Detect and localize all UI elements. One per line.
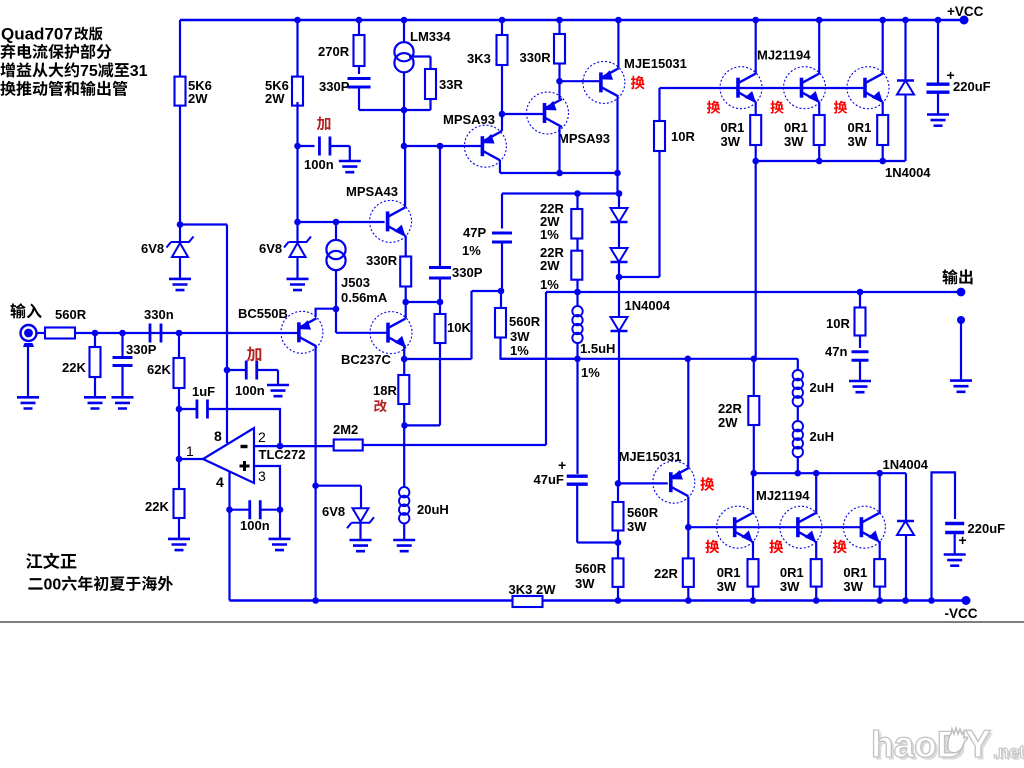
svg-text:3W: 3W [717, 579, 737, 594]
+VCC rail [180, 19, 964, 21]
svg-text:560R: 560R [627, 505, 659, 520]
inductor L 2uH #1 [797, 359, 799, 370]
svg-text:2W: 2W [265, 91, 285, 106]
svg-text:10K: 10K [447, 320, 471, 335]
resistor R 330R mid [400, 257, 411, 287]
wire feedback node left to riser [546, 291, 578, 293]
svg-text:75: 75 [80, 63, 98, 80]
svg-text:1%: 1% [581, 365, 600, 380]
node +6V8 A junction [177, 221, 184, 228]
svg-text:100n: 100n [235, 383, 265, 398]
resistor R 0R1 3W bottom #2 [811, 559, 822, 587]
svg-text:2uH: 2uH [810, 380, 835, 395]
wire 330R bottom to 10K top [406, 301, 440, 303]
svg-text:0R1: 0R1 [784, 120, 808, 135]
junction emitter column / LR node [751, 356, 758, 363]
ground input [17, 397, 39, 408]
svg-text:MJE15031: MJE15031 [619, 449, 682, 464]
svg-text:3W: 3W [780, 579, 800, 594]
junction 5K6-100n node [294, 143, 301, 150]
svg-text:330P: 330P [452, 265, 483, 280]
svg-text:6V8: 6V8 [141, 241, 164, 256]
wire 1N4004 to MJE#2 base [615, 480, 622, 487]
resistor R 330R top [558, 20, 560, 34]
svg-text:22R: 22R [654, 566, 678, 581]
svg-text:6V8: 6V8 [259, 241, 282, 256]
LM334 set resistor tap wire [409, 55, 431, 57]
resistor R 33R [425, 69, 436, 99]
op-amp plus symbol [240, 461, 250, 471]
svg-text:3W: 3W [627, 519, 647, 534]
MJ21194 bottom #3 emitter wire [879, 541, 881, 559]
junction 62K top [176, 330, 183, 337]
wire driver bases [660, 87, 866, 89]
op-amp minus symbol [241, 445, 248, 448]
resistor R 5K6 2W #2 [296, 20, 298, 77]
svg-text:2W: 2W [718, 415, 738, 430]
svg-text:J503: J503 [341, 275, 370, 290]
svg-text:3W: 3W [784, 134, 804, 149]
junction MPSA93#2 collector [556, 170, 563, 177]
wire 330P#3 to junction [439, 278, 441, 302]
+VCC rail end dot [960, 16, 969, 25]
red note huan MJE#1 [631, 76, 645, 90]
zener D 6V8 #3 [347, 517, 374, 528]
resistor R 270R [358, 20, 360, 35]
wire 6V8 node to MPSA43 base [298, 221, 385, 223]
svg-text:22K: 22K [62, 360, 86, 375]
red note gai [374, 400, 387, 413]
junction MPSA43 collector node [401, 143, 408, 150]
junction diode chain bottom [616, 274, 623, 281]
svg-text:.net: .net [993, 742, 1024, 762]
svg-text:1%: 1% [540, 277, 559, 292]
junction 22R chain top [574, 190, 581, 197]
resistor R 3K3 2W inline [513, 596, 543, 607]
svg-text:10R: 10R [826, 316, 850, 331]
capacitor C 330P #1 [348, 78, 371, 87]
svg-text:2: 2 [258, 429, 266, 445]
junction 330P#3 riser tap [437, 143, 444, 150]
BC237C emitter wire [403, 347, 405, 360]
resistor R 22R 2W 1% #1 [576, 194, 578, 210]
ground 6V8 #1 [169, 279, 191, 290]
wire 22R 2W to collector bus [753, 425, 755, 473]
resistor R 0R1 3W bottom #3 [874, 559, 885, 587]
svg-text:2W: 2W [188, 91, 208, 106]
MJ21194 bottom #1 emitter wire [752, 541, 754, 559]
junction 0R1 bottoms [752, 158, 759, 165]
bottom bypass riser wire [932, 472, 956, 600]
svg-text:0R1: 0R1 [717, 565, 741, 580]
svg-text:6V8: 6V8 [322, 504, 345, 519]
junction MJE15031#1 collector [614, 170, 621, 177]
transistor Q MJE15031 #1 [583, 61, 625, 103]
svg-text:1%: 1% [462, 243, 481, 258]
ground 20uH [393, 540, 415, 551]
svg-text:1N4004: 1N4004 [883, 457, 929, 472]
MJ21194 top #2 emitter wire [818, 102, 820, 116]
resistor R 22R bottom [683, 558, 694, 587]
inductor L 20uH [399, 487, 409, 497]
red note huan MJE#2 [700, 477, 714, 491]
svg-text:330R: 330R [366, 253, 398, 268]
svg-text:1.5uH: 1.5uH [580, 341, 615, 356]
junction dots top rail [294, 17, 301, 24]
node +6V8 B junction [294, 219, 301, 226]
svg-text:0R1: 0R1 [780, 565, 804, 580]
MPSA93#1 collector wire [499, 160, 501, 173]
resistor R 560R input [37, 332, 46, 334]
MJE15031#1 emitter wire to rail [617, 20, 619, 68]
transistor Q BC550B [281, 311, 323, 353]
wire pin2 to 2M2 [254, 445, 280, 447]
ground 220uF top [927, 115, 949, 126]
MJ21194 bottom #1 collector wire [752, 473, 754, 514]
resistor R 2M2 [334, 440, 363, 451]
junction MJE#2 emitter tap [685, 356, 692, 363]
BC237C collector wire [405, 302, 407, 318]
junction 6V8#3 tap [312, 482, 319, 489]
junction 22K top [92, 330, 99, 337]
-VCC rail left segment [230, 599, 513, 601]
wire 47P bottom to node B [501, 242, 503, 291]
svg-text:1N4004: 1N4004 [885, 165, 931, 180]
wire to MJE15031#1 base [560, 80, 601, 82]
capacitor C 47P 1% [492, 233, 512, 242]
current source U LM334 [403, 20, 405, 42]
junction BC237C emitter node [401, 356, 408, 363]
junction 100n#3 right / pin3 node [277, 506, 284, 513]
resistor R 22K #2 [178, 459, 180, 489]
inductor L 2uH #2 [797, 406, 799, 421]
junction 18R bottom [403, 404, 405, 425]
svg-text:47uF: 47uF [534, 472, 564, 487]
MJ21194 top #3 emitter wire [882, 102, 884, 116]
wire bias node row [500, 358, 798, 360]
svg-text:TLC272: TLC272 [259, 447, 306, 462]
svg-text:330R: 330R [520, 50, 552, 65]
MJ21194 top #3 collector wire [882, 20, 884, 74]
svg-text:560R: 560R [575, 561, 607, 576]
wire 47P top to 22R chain [501, 194, 503, 229]
svg-text:8: 8 [214, 428, 222, 444]
ground 100n #2 [267, 385, 289, 396]
resistor R 3K3 [501, 20, 503, 35]
svg-text:33R: 33R [439, 77, 463, 92]
diode D 1N4004 rail-split [618, 277, 620, 317]
junction 1uF left [176, 406, 183, 413]
collector bus wire bottom [754, 472, 906, 474]
svg-text:MPSA93: MPSA93 [443, 112, 495, 127]
watermark haoDIY.net [871, 723, 1024, 768]
resistor R 0R1 3W bottom #1 [748, 559, 759, 587]
pin 4 wire [228, 471, 230, 600]
node V1 junction 3K3/MPSA93#1 [499, 111, 506, 118]
resistor R 10R driver [658, 88, 660, 121]
svg-text:62K: 62K [147, 362, 171, 377]
current source U J503 0.56mA [333, 219, 340, 226]
transistor Q MJ21194 bottom #2 [780, 506, 822, 548]
junction 100n#2 tap [224, 367, 231, 374]
MJ21194 bottom #3 collector wire [879, 473, 881, 514]
svg-text:2uH: 2uH [810, 429, 835, 444]
capacitor C 47uF electrolytic [576, 359, 578, 474]
svg-text:00: 00 [44, 577, 62, 594]
svg-text:220uF: 220uF [968, 521, 1006, 536]
output return terminal dot [957, 316, 965, 324]
MPSA43 collector wire [404, 146, 406, 207]
svg-text:3W: 3W [843, 579, 863, 594]
resistor R 22R 2W [753, 359, 755, 396]
ground 22K #2 [168, 539, 190, 550]
svg-text:3K3 2W: 3K3 2W [509, 582, 557, 597]
svg-text:22R: 22R [718, 401, 742, 416]
resistor R 22R 2W 1% #2 [576, 239, 578, 251]
diode D 1N4004 bottom [905, 473, 907, 600]
svg-text:1N4004: 1N4004 [625, 298, 671, 313]
red note huan bottom bank [705, 540, 719, 554]
diode D 1N4004 top [904, 20, 906, 80]
svg-text:3W: 3W [575, 576, 595, 591]
wire 560R bottom corner [501, 338, 578, 359]
junction 10K top [437, 299, 444, 306]
capacitor C 220uF top electrolytic [937, 20, 939, 83]
junction dots -VCC rail [312, 597, 319, 604]
inductor L 1.5uH [574, 356, 581, 363]
wire 18R bottom down to 20uH [403, 425, 405, 487]
wire V1 to MPSA93#2 base [502, 113, 545, 115]
capacitor C 330P #3 [429, 267, 451, 278]
MJ21194 top #1 collector wire [755, 20, 757, 74]
svg-text:270R: 270R [318, 44, 350, 59]
resistor R 560R 3W #A [617, 483, 619, 502]
ground 330P #2 [112, 397, 134, 408]
wire emitter node to riser [404, 358, 471, 360]
svg-text:330P: 330P [319, 79, 350, 94]
svg-text:-VCC: -VCC [945, 606, 978, 621]
wire to BC237C base [335, 309, 337, 333]
diode D bias #1 [618, 194, 620, 209]
capacitor C 100n #1 [298, 145, 315, 147]
transistor Q MJ21194 bottom #3 [843, 506, 885, 548]
wire collector node to MPSA93#1 base [404, 145, 482, 147]
junction Zobel tap [857, 289, 864, 296]
svg-text:Y: Y [965, 723, 991, 766]
MJE15031#2 collector wire [687, 497, 689, 559]
ground output return [950, 381, 972, 392]
wire MPSA93 collectors [500, 172, 618, 174]
output wire [578, 291, 962, 293]
divider line [0, 621, 1024, 623]
output return ground wire [960, 320, 962, 381]
wire 62K-1uF-output column [178, 409, 180, 459]
input connector ground wire [27, 347, 29, 397]
resistor R 18R [403, 359, 405, 375]
svg-text:330n: 330n [144, 307, 174, 322]
svg-text:20uH: 20uH [417, 502, 449, 517]
transistor Q MPSA93 #2 [527, 92, 569, 134]
transistor Q BC237C [370, 312, 412, 354]
capacitor C 330n [150, 324, 161, 343]
zener D 6V8 #2 [296, 222, 298, 242]
svg-text:MPSA43: MPSA43 [346, 184, 398, 199]
node B junction 47P/560R [498, 288, 505, 295]
MJ21194 top #1 emitter wire [755, 102, 757, 116]
junction feedback node [574, 289, 581, 296]
MJ21194 bottom #2 emitter wire [815, 541, 817, 559]
junction J503 bottom / BC550B collector [333, 306, 340, 313]
svg-text:0R1: 0R1 [843, 565, 867, 580]
wire diode bottom to 10R driver [619, 276, 660, 278]
ground pin3 [269, 539, 291, 550]
red note jia #2 [247, 347, 261, 362]
transistor Q MPSA43 [370, 200, 412, 242]
svg-text:MJE15031: MJE15031 [624, 56, 687, 71]
svg-text:3: 3 [258, 468, 266, 484]
output label [942, 269, 957, 284]
ground Zobel [849, 381, 871, 392]
capacitor C 330P #2 [121, 333, 123, 358]
wire tap to 6V8#3 [316, 485, 361, 487]
svg-text:0R1: 0R1 [721, 120, 745, 135]
zener D 6V8 #1 [179, 225, 181, 243]
svg-text:1%: 1% [540, 227, 559, 242]
MJ21194 bottom #2 collector wire [815, 473, 817, 514]
resistor R 560R 3W #B [613, 558, 624, 587]
MPSA93#2 emitter wire [558, 81, 560, 99]
-VCC rail right segment [543, 599, 967, 601]
transistor Q MPSA93 #1 [464, 125, 506, 167]
capacitor C 220uF bottom electrolytic [945, 524, 964, 533]
svg-text:+: + [959, 532, 967, 548]
diode D bias #2 [611, 248, 628, 262]
red note jia #1 [317, 116, 331, 130]
capacitor C 47n Zobel [859, 336, 861, 349]
svg-text:2W: 2W [540, 258, 560, 273]
junction dots collector bus [751, 470, 758, 477]
junction diode chain top [616, 190, 623, 197]
-VCC rail end dot [962, 596, 971, 605]
wire 62K to 1uF node [178, 388, 180, 409]
resistor R 560R 3W 1% mid [500, 291, 502, 308]
svg-text:22K: 22K [145, 499, 169, 514]
capacitor C 100n #2 [227, 369, 246, 371]
author text [26, 553, 42, 569]
junction 330R bottom [402, 299, 409, 306]
svg-text:BC237C: BC237C [341, 352, 391, 367]
junction op-amp output [176, 456, 183, 463]
junction 330R bottom / MJE base [556, 78, 563, 85]
bottom bank base bus wire [688, 526, 862, 528]
ground 6V8 #2 [287, 279, 309, 290]
top emitter bus wire [756, 160, 906, 162]
svg-text:4: 4 [216, 474, 224, 490]
svg-text:BC550B: BC550B [238, 306, 288, 321]
MJE15031#2 emitter wire [687, 359, 689, 469]
svg-text:31: 31 [130, 63, 148, 80]
wire 0R1#1 junction down [755, 161, 757, 359]
BC550B emitter column [315, 346, 317, 600]
capacitor C 100n #3 [230, 509, 250, 511]
wire y173 down to diode top [616, 173, 618, 194]
svg-text:330P: 330P [126, 342, 157, 357]
svg-text:3K3: 3K3 [467, 51, 491, 66]
svg-text:10R: 10R [671, 129, 695, 144]
svg-text:+: + [558, 457, 566, 473]
resistor R 62K [178, 333, 180, 358]
junction bottom bank base bus [685, 524, 692, 531]
op-amp U TLC272 [203, 428, 254, 483]
svg-text:47n: 47n [825, 344, 847, 359]
ground 22K #1 [84, 397, 106, 408]
ground 6V8 #3 [350, 540, 372, 551]
input wire to BC550B base [75, 332, 299, 334]
junction LM334 bottom [401, 107, 408, 114]
ground 100n #1 [339, 161, 361, 172]
svg-text:220uF: 220uF [953, 79, 991, 94]
red note huan top bank [707, 101, 720, 114]
svg-text:1%: 1% [510, 343, 529, 358]
wire +6V8 A to opamp supply column [180, 223, 227, 225]
transistor Q MJE15031 #2 [653, 461, 695, 503]
svg-text:3W: 3W [721, 134, 741, 149]
MPSA43 emitter wire [405, 235, 407, 256]
svg-text:100n: 100n [240, 518, 270, 533]
wire riser to 330P#3 [439, 146, 441, 268]
BC550B collector wire to J503 node [316, 309, 336, 318]
MJ21194 top #2 collector wire [818, 20, 820, 74]
ground 220uF bottom [944, 555, 966, 566]
input terminal connector [21, 325, 37, 341]
transistor Q MJ21194 top #2 [784, 67, 826, 109]
junction 100n#3 left [226, 506, 233, 513]
pin 3 wire [254, 466, 280, 510]
output terminal dot [957, 288, 966, 297]
svg-text:MJ21194: MJ21194 [756, 488, 810, 503]
capacitor C 1uF [179, 408, 197, 410]
input label [10, 303, 25, 318]
transistor Q MJ21194 top #1 [720, 67, 762, 109]
wire 2M2 to feedback riser [363, 444, 546, 446]
wire 330P to LM334 bottom [359, 109, 431, 111]
svg-text:18R: 18R [373, 383, 397, 398]
svg-text:100n: 100n [304, 157, 334, 172]
svg-text:47P: 47P [463, 225, 486, 240]
svg-text:MJ21194: MJ21194 [757, 48, 811, 63]
transistor Q MJ21194 top #3 [847, 67, 889, 109]
op-amp output wire pin 1 [179, 458, 203, 460]
resistor R 10K [439, 302, 441, 314]
resistor R 0R1 3W top #3 [877, 115, 888, 145]
svg-text:Quad707: Quad707 [1, 25, 73, 44]
svg-text:MPSA93: MPSA93 [558, 131, 610, 146]
MPSA93#1 emitter wire [500, 114, 502, 133]
svg-text:0.56mA: 0.56mA [341, 290, 388, 305]
svg-text:1uF: 1uF [192, 384, 215, 399]
MPSA93#2 collector wire [558, 127, 560, 173]
svg-text:3W: 3W [848, 134, 868, 149]
svg-text:560R: 560R [509, 314, 541, 329]
resistor R 22K #1 [94, 333, 96, 347]
resistor R 5K6 2W #1 [179, 20, 181, 77]
svg-text:3W: 3W [510, 329, 530, 344]
svg-text:560R: 560R [55, 307, 87, 322]
svg-text:2M2: 2M2 [333, 422, 358, 437]
resistor R 10R Zobel [859, 292, 861, 308]
junction 47uF tap [617, 531, 619, 559]
svg-text:LM334: LM334 [410, 29, 451, 44]
